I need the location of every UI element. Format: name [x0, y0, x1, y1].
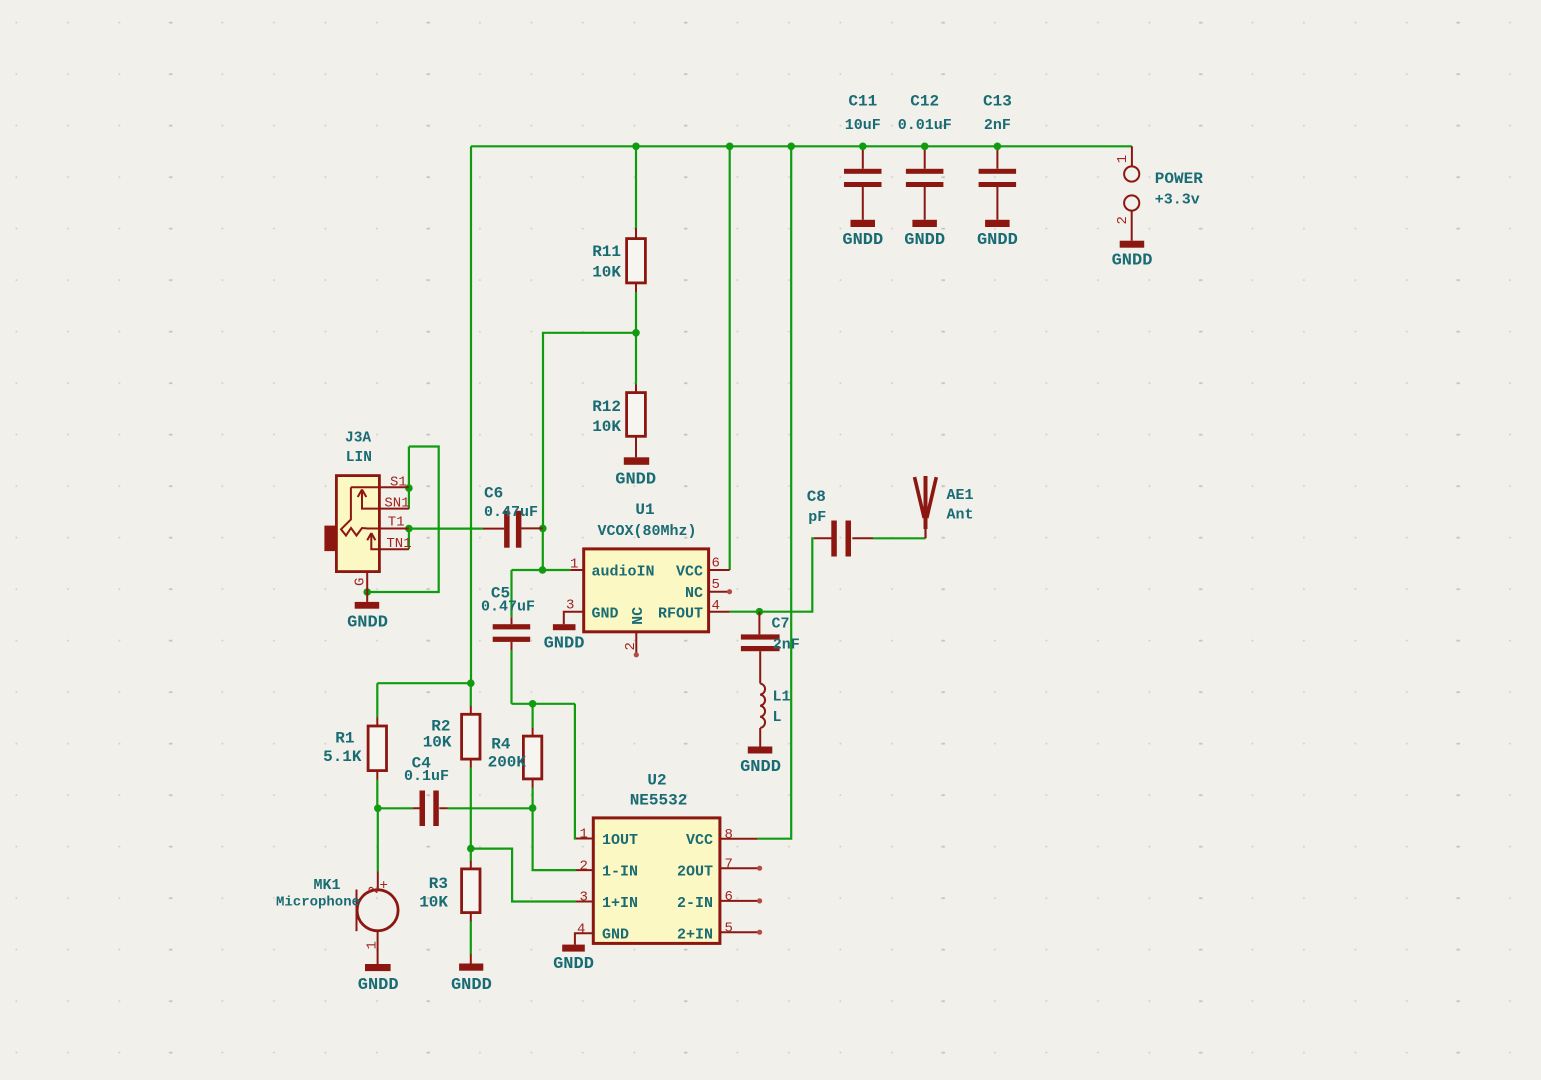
svg-text:C12: C12 — [910, 93, 939, 111]
svg-text:10K: 10K — [423, 734, 452, 752]
svg-text:0.47uF: 0.47uF — [484, 504, 538, 521]
svg-text:J3A: J3A — [345, 430, 371, 446]
svg-text:GNDD: GNDD — [740, 758, 781, 777]
svg-text:1-IN: 1-IN — [602, 864, 638, 881]
wire R11 top — [635, 146, 637, 228]
svg-text:NE5532: NE5532 — [630, 792, 688, 810]
wire R2 top — [470, 683, 472, 706]
svg-text:2+IN: 2+IN — [677, 927, 713, 944]
svg-text:C7: C7 — [772, 616, 790, 633]
svg-text:8: 8 — [725, 827, 733, 843]
wire C8 to antenna — [873, 537, 926, 539]
svg-text:1: 1 — [570, 557, 578, 573]
U1 pin 3 GND — [564, 612, 584, 625]
svg-text:2OUT: 2OUT — [677, 864, 713, 881]
svg-text:1+IN: 1+IN — [602, 895, 638, 912]
U1 pin 5 NC — [709, 591, 729, 593]
svg-text:GNDD: GNDD — [615, 471, 656, 490]
svg-text:GNDD: GNDD — [977, 231, 1018, 250]
U2 pin 7 2OUT — [720, 867, 759, 869]
wire to U2 pin3 — [471, 849, 576, 902]
resistor R12 — [592, 385, 645, 458]
svg-text:GNDD: GNDD — [904, 231, 945, 250]
svg-text:L: L — [773, 709, 782, 726]
svg-text:10K: 10K — [419, 894, 448, 912]
wire S1 to SN1 — [408, 447, 410, 509]
svg-text:C6: C6 — [484, 485, 503, 503]
wire T1 to C6 — [409, 527, 483, 529]
capacitor C4 — [404, 755, 449, 827]
wire R2 bottom to R3 — [470, 768, 472, 849]
node C6 out — [539, 525, 547, 533]
U2 pin 2 1-IN — [576, 869, 593, 871]
svg-text:U2: U2 — [647, 772, 666, 790]
svg-text:SN1: SN1 — [384, 495, 409, 511]
node audioIN — [539, 566, 547, 574]
svg-text:2: 2 — [1115, 216, 1131, 224]
capacitor C7 — [741, 612, 800, 684]
svg-text:2nF: 2nF — [984, 117, 1011, 134]
capacitor C8 — [807, 488, 873, 557]
wire R4 bottom — [531, 788, 533, 809]
svg-text:6: 6 — [712, 556, 720, 572]
ground C12 — [904, 220, 945, 250]
svg-text:2nF: 2nF — [773, 637, 800, 654]
svg-text:3: 3 — [580, 890, 588, 906]
IC U2 NE5532 — [575, 772, 762, 945]
svg-text:C13: C13 — [983, 93, 1012, 111]
svg-text:GNDD: GNDD — [451, 976, 492, 995]
svg-text:R11: R11 — [592, 243, 621, 261]
svg-text:VCC: VCC — [676, 564, 703, 581]
U2 pin 5 2+IN — [720, 931, 759, 933]
svg-text:AE1: AE1 — [947, 487, 974, 504]
U2 pin 4 GND — [575, 933, 593, 944]
wire left vertical from rail — [470, 146, 472, 683]
wire R11 bottom to node — [635, 292, 637, 333]
U2 pin 8 VCC — [720, 838, 758, 840]
node C4 right — [529, 804, 537, 812]
svg-text:0.47uF: 0.47uF — [481, 599, 535, 616]
svg-text:VCC: VCC — [686, 832, 713, 849]
resistor R11 — [592, 228, 645, 292]
svg-text:T1: T1 — [388, 514, 405, 530]
svg-text:1: 1 — [1115, 155, 1131, 163]
svg-text:5.1K: 5.1K — [323, 748, 362, 766]
svg-text:pF: pF — [808, 509, 826, 526]
svg-text:0.1uF: 0.1uF — [404, 768, 449, 785]
wire to U2 pin2 — [533, 808, 576, 870]
node rail U1 VCC — [726, 143, 734, 151]
svg-text:G: G — [352, 578, 368, 586]
node rail U2 VCC — [787, 143, 795, 151]
wire C6 out down to audioIN row — [542, 528, 544, 570]
U1 pin 6 VCC — [709, 569, 730, 571]
svg-text:10uF: 10uF — [845, 117, 881, 134]
svg-text:R4: R4 — [491, 736, 511, 754]
node rail R11 — [632, 143, 640, 151]
ground J3A — [347, 602, 388, 633]
node R1 top — [467, 679, 475, 687]
svg-text:1: 1 — [365, 941, 381, 949]
ground C11 — [842, 220, 883, 250]
ground U1 pin3 — [544, 624, 585, 653]
svg-text:GNDD: GNDD — [842, 231, 883, 250]
wire C4 row right — [448, 807, 533, 809]
wire R1 top row — [377, 682, 471, 684]
capacitor C5 — [481, 585, 535, 651]
wire audioIN row — [512, 569, 571, 571]
ground C13 — [977, 220, 1018, 250]
ground U2 pin4 — [553, 945, 594, 974]
svg-text:1: 1 — [580, 827, 588, 843]
wire R4 top — [531, 704, 533, 728]
svg-text:R1: R1 — [335, 730, 354, 748]
wire U1 VCC column — [729, 146, 731, 570]
svg-text:4: 4 — [712, 598, 720, 614]
wire RFOUT node — [730, 611, 760, 613]
node C4 left — [374, 805, 382, 813]
capacitor C11 — [844, 93, 882, 220]
node R4 top — [529, 700, 537, 708]
capacitor C13 — [979, 93, 1017, 220]
wire T1 to TN1 — [408, 529, 410, 550]
antenna AE1 — [915, 476, 974, 538]
wire R3 top lead — [470, 849, 472, 861]
svg-text:GNDD: GNDD — [553, 955, 594, 974]
resistor R3 — [419, 861, 480, 964]
IC U1 VCOX — [564, 501, 732, 657]
svg-text:3: 3 — [566, 597, 574, 613]
wire C4 row left — [378, 807, 413, 809]
svg-text:TN1: TN1 — [386, 536, 411, 552]
svg-text:+3.3v: +3.3v — [1155, 192, 1200, 209]
ground MK1 — [358, 964, 399, 995]
node RFOUT — [756, 608, 764, 616]
node rail C12 — [921, 143, 929, 151]
wire R12 top — [635, 333, 637, 385]
node R3 top — [467, 845, 475, 853]
svg-text:2: 2 — [623, 642, 639, 650]
wire mic top lead — [377, 808, 379, 871]
capacitor C6 — [483, 485, 543, 548]
ground R3 — [451, 964, 492, 996]
svg-text:U1: U1 — [635, 501, 654, 519]
svg-text:Microphone: Microphone — [276, 895, 360, 911]
resistor R1 — [323, 718, 386, 780]
node S1 — [405, 484, 413, 492]
capacitor C12 — [898, 93, 952, 220]
ground L1 — [740, 747, 781, 778]
U2 pin 3 1+IN — [576, 901, 593, 903]
svg-text:10K: 10K — [592, 418, 621, 436]
svg-text:2: 2 — [580, 858, 588, 874]
svg-text:GNDD: GNDD — [358, 976, 399, 995]
wire S1 loop — [367, 447, 439, 593]
node rail C11 — [859, 143, 867, 151]
svg-text:4: 4 — [577, 922, 585, 938]
svg-text:200K: 200K — [488, 754, 527, 772]
microphone MK1 — [276, 872, 398, 965]
svg-text:R12: R12 — [592, 398, 621, 416]
wire R3 bottom — [470, 922, 472, 955]
wire RFOUT to C8 — [759, 538, 814, 611]
svg-text:R3: R3 — [429, 875, 448, 893]
svg-text:10K: 10K — [592, 264, 621, 282]
U2 pin 1 1OUT — [576, 838, 593, 840]
inductor L1 — [760, 684, 790, 747]
svg-text:POWER: POWER — [1155, 170, 1203, 188]
svg-text:audioIN: audioIN — [592, 564, 655, 581]
wire power rail — [471, 145, 1132, 147]
resistor R4 — [488, 728, 542, 788]
wire R1 bottom — [376, 780, 378, 809]
svg-text:GND: GND — [592, 605, 619, 622]
node R11 R12 — [632, 329, 640, 337]
svg-text:6: 6 — [725, 889, 733, 905]
node rail C13 — [994, 143, 1002, 151]
svg-text:GNDD: GNDD — [347, 614, 388, 633]
ground POWER — [1112, 241, 1153, 271]
wire C5 top lead — [510, 570, 512, 617]
svg-text:GNDD: GNDD — [1112, 252, 1153, 271]
svg-text:2-IN: 2-IN — [677, 895, 713, 912]
ground R12 — [615, 457, 656, 489]
svg-text:5: 5 — [725, 920, 733, 936]
svg-text:+: + — [380, 878, 388, 894]
svg-text:Ant: Ant — [947, 507, 974, 524]
connector J3A LIN jack — [324, 430, 411, 602]
wire y704 row — [512, 703, 575, 705]
svg-text:MK1: MK1 — [314, 877, 341, 894]
U1 pin 1 audioIN — [570, 569, 584, 571]
resistor R2 — [423, 706, 480, 768]
svg-text:1OUT: 1OUT — [602, 832, 638, 849]
svg-text:C11: C11 — [848, 93, 877, 111]
U2 pin 6 2-IN — [720, 900, 759, 902]
node jack G — [363, 588, 371, 596]
svg-text:7: 7 — [725, 856, 733, 872]
svg-text:S1: S1 — [390, 474, 407, 490]
wire to U2 pin1 — [575, 704, 576, 839]
connector POWER +3.3v — [1115, 146, 1203, 240]
wire R1 top lead — [376, 683, 378, 717]
svg-text:GND: GND — [602, 927, 629, 944]
wire U2 VCC column — [757, 146, 791, 838]
U1 pin 2 NC bottom — [635, 632, 637, 654]
svg-text:C8: C8 — [807, 488, 826, 506]
svg-text:L1: L1 — [773, 689, 791, 706]
svg-text:NC: NC — [685, 585, 703, 602]
node T1 — [405, 525, 413, 533]
wire node to C6 column — [543, 333, 636, 529]
wire C5 bottom to row — [510, 650, 512, 704]
svg-text:LIN: LIN — [346, 450, 372, 466]
svg-text:NC: NC — [630, 607, 647, 625]
svg-text:VCOX(80Mhz): VCOX(80Mhz) — [597, 523, 696, 540]
U1 pin 4 RFOUT — [709, 611, 730, 613]
svg-text:0.01uF: 0.01uF — [898, 117, 952, 134]
svg-text:5: 5 — [712, 577, 720, 593]
svg-text:RFOUT: RFOUT — [658, 605, 703, 622]
svg-text:GNDD: GNDD — [544, 635, 585, 654]
